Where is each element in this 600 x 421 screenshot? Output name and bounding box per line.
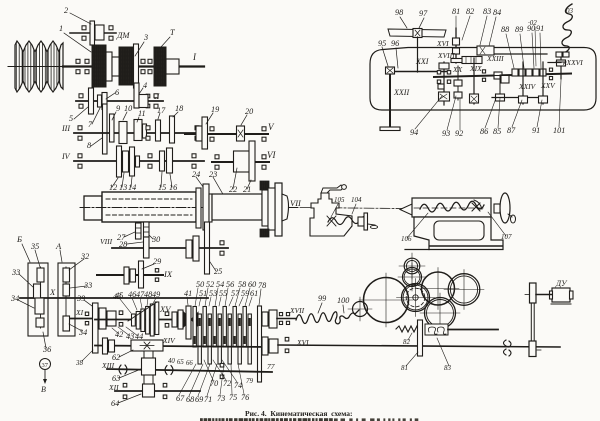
svg-text:XII: XII xyxy=(108,383,119,392)
gear 3 xyxy=(119,47,134,85)
svg-text:8: 8 xyxy=(87,141,91,150)
svg-text:85: 85 xyxy=(493,127,501,136)
shaft XXIII xyxy=(483,53,547,55)
flexible shaft 103 xyxy=(562,4,572,53)
cone clutch xyxy=(184,313,198,327)
svg-text:19: 19 xyxy=(211,105,219,114)
svg-text:58: 58 xyxy=(238,280,246,289)
label 10 xyxy=(123,104,132,120)
plate 39 xyxy=(93,303,99,353)
svg-text:5: 5 xyxy=(69,114,73,123)
svg-text:14: 14 xyxy=(128,183,136,192)
svg-text:16: 16 xyxy=(169,183,178,192)
caption xyxy=(245,409,353,418)
bearing XII r xyxy=(163,383,167,398)
gear 6 small xyxy=(98,95,102,107)
label 81 xyxy=(452,7,460,27)
shaft III xyxy=(74,132,204,134)
label 42 xyxy=(112,328,123,339)
gear 7 block xyxy=(102,93,107,110)
gear 33 in B xyxy=(34,284,41,298)
gears XVI out xyxy=(262,337,278,355)
shaft XIV xyxy=(95,346,272,348)
svg-text:7: 7 xyxy=(88,120,93,129)
label 107 xyxy=(488,212,512,241)
bearing VI left xyxy=(215,155,219,169)
main shaft XX-XIX xyxy=(434,74,571,78)
label II xyxy=(146,92,159,108)
spiral box 83 xyxy=(425,324,448,335)
svg-text:32: 32 xyxy=(80,252,89,261)
label 39 xyxy=(76,294,92,306)
label 6 xyxy=(106,88,120,99)
bevel pair right xyxy=(494,72,509,83)
label 97 xyxy=(419,9,428,28)
gear 35 in B xyxy=(37,268,44,282)
svg-text:10: 10 xyxy=(124,104,132,113)
disc right of 3 xyxy=(134,44,139,88)
label X xyxy=(49,287,56,297)
col 87 xyxy=(519,62,528,104)
svg-text:105: 105 xyxy=(334,196,345,204)
label XXV xyxy=(540,81,556,90)
svg-text:IV: IV xyxy=(61,152,71,161)
friction clutch 1 xyxy=(92,45,106,87)
label 27 xyxy=(117,232,135,242)
label 21 xyxy=(243,180,251,194)
belt lines xyxy=(525,295,541,351)
svg-text:65: 65 xyxy=(177,359,184,366)
label 8 xyxy=(87,138,102,150)
cone gears 45-49 xyxy=(128,302,159,336)
svg-text:34: 34 xyxy=(10,294,19,303)
label 99 xyxy=(318,294,326,313)
label 78 xyxy=(258,281,266,305)
DU motor xyxy=(536,279,573,304)
label 40 xyxy=(168,358,175,365)
svg-text:50: 50 xyxy=(196,280,204,289)
svg-text:67: 67 xyxy=(176,394,185,403)
label 16 xyxy=(169,174,178,192)
bearing III right xyxy=(195,126,199,140)
disc 11b xyxy=(143,124,147,138)
svg-text:IX: IX xyxy=(163,269,173,279)
svg-text:79: 79 xyxy=(246,377,254,385)
label 95 xyxy=(378,39,388,66)
label XIX xyxy=(469,64,482,73)
svg-text:ДУ: ДУ xyxy=(555,279,568,288)
bearing IV right xyxy=(192,154,196,168)
label 83b xyxy=(437,338,452,372)
gear 103 end xyxy=(556,52,569,62)
svg-text:XX: XX xyxy=(452,65,463,74)
spindle flange a xyxy=(262,190,268,226)
bar XVIII xyxy=(451,59,462,63)
label 34R xyxy=(69,324,87,337)
label 15 xyxy=(158,172,166,192)
XXII foot xyxy=(380,127,400,131)
label 106 xyxy=(401,213,428,243)
worm handle xyxy=(368,224,378,229)
bearing XII l xyxy=(123,383,127,398)
svg-text:V: V xyxy=(268,122,275,132)
svg-text:77: 77 xyxy=(267,362,275,371)
svg-text:51: 51 xyxy=(199,289,207,298)
tailstock base line xyxy=(405,246,502,250)
half nut clamps xyxy=(504,340,512,356)
gear 12 xyxy=(117,146,122,177)
shaft XII xyxy=(115,390,200,392)
clamp XIII b xyxy=(165,366,173,375)
block 4 xyxy=(139,95,148,108)
svg-text:41: 41 xyxy=(184,289,192,298)
svg-text:74: 74 xyxy=(234,381,242,390)
svg-text:71: 71 xyxy=(204,395,212,404)
gear 11 block xyxy=(134,120,142,141)
col 94 xyxy=(437,62,450,105)
svg-text:35: 35 xyxy=(30,242,39,251)
box 62 xyxy=(131,340,163,351)
frame B axis xyxy=(40,267,42,328)
bearing IV mid xyxy=(148,154,152,168)
svg-text:76: 76 xyxy=(241,393,250,402)
label 38 xyxy=(75,350,93,367)
gear 34 in B xyxy=(35,298,44,314)
label 36 xyxy=(42,332,52,354)
labels under box xyxy=(410,80,565,138)
svg-text:33: 33 xyxy=(83,281,92,290)
plate 78 xyxy=(258,306,262,382)
shaft IV xyxy=(74,160,204,162)
tailstock barrel 106-107 xyxy=(400,198,491,217)
svg-text:66: 66 xyxy=(186,360,193,367)
gear VIII right b xyxy=(193,236,199,261)
svg-text:XXIV: XXIV xyxy=(518,82,537,91)
gear 34 in A xyxy=(63,316,70,331)
label 18 xyxy=(173,104,183,117)
bearing IX r xyxy=(155,269,158,282)
milling head body 105 xyxy=(300,185,402,236)
gear 63 xyxy=(142,358,156,375)
bearing V mid xyxy=(210,127,214,141)
bar 81 xyxy=(418,320,423,356)
spindle gear 24 xyxy=(196,188,201,228)
shaft XIII xyxy=(107,369,272,372)
lever link xyxy=(417,37,419,72)
leadscrew XVI xyxy=(278,345,560,347)
col XIX xyxy=(470,58,479,104)
gear 40 cluster a xyxy=(99,308,106,329)
bearing XV right xyxy=(165,312,169,327)
column 62-64 xyxy=(144,351,153,386)
svg-text:III: III xyxy=(61,124,70,133)
label 43b xyxy=(118,327,134,341)
label 32 xyxy=(69,252,89,270)
svg-text:104: 104 xyxy=(351,196,362,204)
label 30 xyxy=(149,235,160,244)
svg-text:XI: XI xyxy=(75,308,84,317)
svg-text:29: 29 xyxy=(153,257,161,266)
bearing I left b xyxy=(85,59,89,73)
shaft II xyxy=(76,100,163,102)
bearing DM left xyxy=(82,26,86,40)
svg-text:VII: VII xyxy=(290,198,302,208)
shaft DM xyxy=(70,32,116,34)
spring 82 xyxy=(396,326,422,332)
label XX xyxy=(452,65,463,74)
shaft X xyxy=(20,297,208,299)
label XVIII xyxy=(437,51,455,60)
label 43a xyxy=(113,292,121,301)
svg-text:78: 78 xyxy=(258,281,266,290)
bearing II right xyxy=(154,94,158,108)
svg-text:Т: Т xyxy=(170,28,176,37)
label 63 xyxy=(112,369,141,383)
gear XVIa xyxy=(453,38,460,54)
spindle body xyxy=(80,192,300,222)
svg-text:91: 91 xyxy=(536,24,544,33)
flexible shaft 99 xyxy=(296,310,359,324)
svg-text:63: 63 xyxy=(112,374,120,383)
svg-text:37: 37 xyxy=(42,362,49,369)
svg-text:кXXVI: кXXVI xyxy=(563,58,583,67)
label 02 xyxy=(528,19,537,66)
col 101 xyxy=(557,57,566,79)
gear 18 bar xyxy=(170,116,175,143)
apron out line xyxy=(448,329,498,331)
bearing XVI xyxy=(285,337,289,352)
label 98 xyxy=(395,8,407,28)
label 41 xyxy=(184,289,192,305)
label 3 xyxy=(135,33,148,56)
gear VIII right a xyxy=(186,240,192,258)
label XXII xyxy=(393,88,409,97)
label 17 xyxy=(157,106,166,119)
svg-text:·02: ·02 xyxy=(528,19,537,27)
label 96 xyxy=(391,39,400,68)
svg-text:А: А xyxy=(55,241,62,251)
svg-text:75: 75 xyxy=(229,393,237,402)
svg-text:82: 82 xyxy=(466,7,474,16)
gear 2 on DM xyxy=(90,21,95,45)
apron gear train xyxy=(348,253,484,333)
frame A xyxy=(58,263,75,336)
handwheel 107 xyxy=(494,193,516,223)
cone pulley xyxy=(8,41,63,92)
svg-text:83: 83 xyxy=(483,7,491,16)
legend cut line xyxy=(200,418,418,421)
gear 41 plate xyxy=(186,306,191,339)
gear 19 hub xyxy=(196,126,202,141)
shaft VI xyxy=(212,161,269,163)
label 33R xyxy=(70,281,92,290)
svg-text:38: 38 xyxy=(75,359,84,367)
frame B xyxy=(28,263,48,336)
label 1 xyxy=(59,24,91,52)
gear 21 bar xyxy=(249,141,255,181)
svg-text:XVI: XVI xyxy=(436,39,449,48)
label VI xyxy=(267,150,276,160)
label IV xyxy=(61,152,71,161)
svg-text:В: В xyxy=(41,385,46,394)
gear 83 box xyxy=(477,46,494,55)
shaft XVIa xyxy=(455,28,457,63)
label III xyxy=(61,124,70,133)
clamp XIII a xyxy=(119,365,127,374)
label 4 xyxy=(139,81,147,94)
bearing IV left xyxy=(78,154,82,168)
spindle flange c xyxy=(268,188,275,230)
spindle gear 23 xyxy=(203,184,209,230)
shaft XXII xyxy=(389,70,391,127)
label 35 xyxy=(30,242,40,267)
gear 30 bar xyxy=(144,237,150,258)
bearing I right b xyxy=(148,59,152,73)
rack XVIII xyxy=(462,57,482,64)
svg-text:84: 84 xyxy=(493,8,501,17)
svg-text:XIX: XIX xyxy=(469,64,482,73)
svg-text:21: 21 xyxy=(243,185,251,194)
shaft XVII xyxy=(277,318,296,320)
label T xyxy=(161,28,176,47)
svg-text:Б: Б xyxy=(16,234,22,244)
bearing VI right xyxy=(262,155,266,169)
svg-text:68: 68 xyxy=(186,395,194,404)
bearing I left a xyxy=(76,59,80,73)
label 5 xyxy=(69,107,88,123)
label 44 xyxy=(126,327,143,341)
gear 10 block xyxy=(119,122,127,144)
svg-text:XXII: XXII xyxy=(393,88,409,97)
label 19 xyxy=(206,105,219,124)
label VIII xyxy=(100,237,113,246)
label B xyxy=(16,234,30,262)
lever 98 xyxy=(388,29,446,38)
svg-text:55: 55 xyxy=(219,289,227,298)
belt pulley top xyxy=(530,283,537,303)
gear 64 xyxy=(143,384,155,397)
label XV xyxy=(159,304,172,314)
col 85 xyxy=(496,75,505,101)
labels 50-61 xyxy=(195,280,258,306)
label 84t xyxy=(488,8,501,50)
label 64 xyxy=(111,394,141,408)
label IX xyxy=(163,269,173,279)
bearing II left xyxy=(79,94,83,108)
gear 22 block xyxy=(234,151,250,172)
label XIV xyxy=(162,336,176,345)
headstock cover box xyxy=(370,48,596,111)
svg-text:30: 30 xyxy=(151,235,160,244)
label VII xyxy=(290,198,302,208)
svg-text:81: 81 xyxy=(452,7,460,16)
svg-text:100: 100 xyxy=(337,296,349,305)
gear B bottom xyxy=(36,318,44,327)
shaft XXII top xyxy=(386,71,448,73)
label 20 xyxy=(241,107,253,125)
label A xyxy=(55,241,62,262)
svg-text:6: 6 xyxy=(115,88,120,97)
gear 28 ladder xyxy=(144,222,150,237)
label 23 xyxy=(209,170,224,196)
svg-text:11: 11 xyxy=(138,109,146,118)
label 2 xyxy=(64,6,91,24)
svg-text:59: 59 xyxy=(241,289,249,298)
svg-text:36: 36 xyxy=(42,345,52,354)
pulley T xyxy=(154,47,166,86)
label 100 xyxy=(337,296,349,313)
svg-text:91: 91 xyxy=(532,126,540,135)
shaft I xyxy=(63,65,204,67)
svg-text:XVI: XVI xyxy=(296,338,309,347)
bearing V right xyxy=(262,127,266,141)
svg-text:43: 43 xyxy=(113,292,121,301)
label 13 xyxy=(119,173,127,192)
lower shaft right xyxy=(492,97,538,99)
label XXIII xyxy=(486,54,504,63)
worm 104 xyxy=(327,216,367,226)
gear 13 xyxy=(123,151,129,172)
bearing I right a xyxy=(141,59,145,73)
gear 40 cluster b xyxy=(107,311,116,326)
svg-text:25: 25 xyxy=(214,267,222,276)
svg-text:40: 40 xyxy=(168,358,175,365)
bearing XIII r xyxy=(220,363,224,378)
svg-text:86: 86 xyxy=(480,127,489,136)
label XX gear xyxy=(438,84,444,89)
hub T xyxy=(166,59,179,74)
bearing VIII right xyxy=(220,241,224,255)
label 11 xyxy=(137,109,146,122)
svg-text:1: 1 xyxy=(59,24,63,33)
svg-text:70: 70 xyxy=(210,379,218,388)
svg-text:Рис. 4. Кинематическая схема: Рис. 4. Кинематическая схема: xyxy=(245,409,353,418)
svg-text:53: 53 xyxy=(209,289,217,298)
gear 27 ladder xyxy=(136,223,142,239)
disc 14b xyxy=(136,156,140,167)
svg-text:94: 94 xyxy=(410,128,418,137)
shaft V xyxy=(185,133,268,135)
gear 19 bar xyxy=(202,117,208,149)
label XVI top xyxy=(436,39,449,48)
svg-text:89: 89 xyxy=(515,25,523,34)
col 91b xyxy=(539,62,548,104)
labels 63-77 xyxy=(176,359,275,404)
gear 14 xyxy=(130,147,135,176)
svg-text:33: 33 xyxy=(11,268,20,277)
bearing XV left xyxy=(119,311,123,326)
gear 32 in A xyxy=(63,268,70,282)
label 104 xyxy=(351,196,362,214)
svg-text:97: 97 xyxy=(419,9,428,18)
svg-text:72: 72 xyxy=(223,379,231,388)
label I xyxy=(192,52,197,62)
label 25 xyxy=(210,262,222,276)
svg-text:64: 64 xyxy=(111,399,119,408)
label 12 xyxy=(109,178,118,192)
svg-text:106: 106 xyxy=(401,235,412,243)
label 28 xyxy=(119,240,143,249)
coupling disc xyxy=(106,52,112,81)
col 92-93 xyxy=(454,66,462,100)
label XIII xyxy=(101,361,115,370)
label 14 xyxy=(128,177,136,192)
spindle flange b xyxy=(275,183,282,236)
gears XIV left xyxy=(103,338,115,354)
labels 45-49 xyxy=(115,290,160,313)
label 34L xyxy=(10,294,34,308)
label 105 xyxy=(331,196,345,217)
